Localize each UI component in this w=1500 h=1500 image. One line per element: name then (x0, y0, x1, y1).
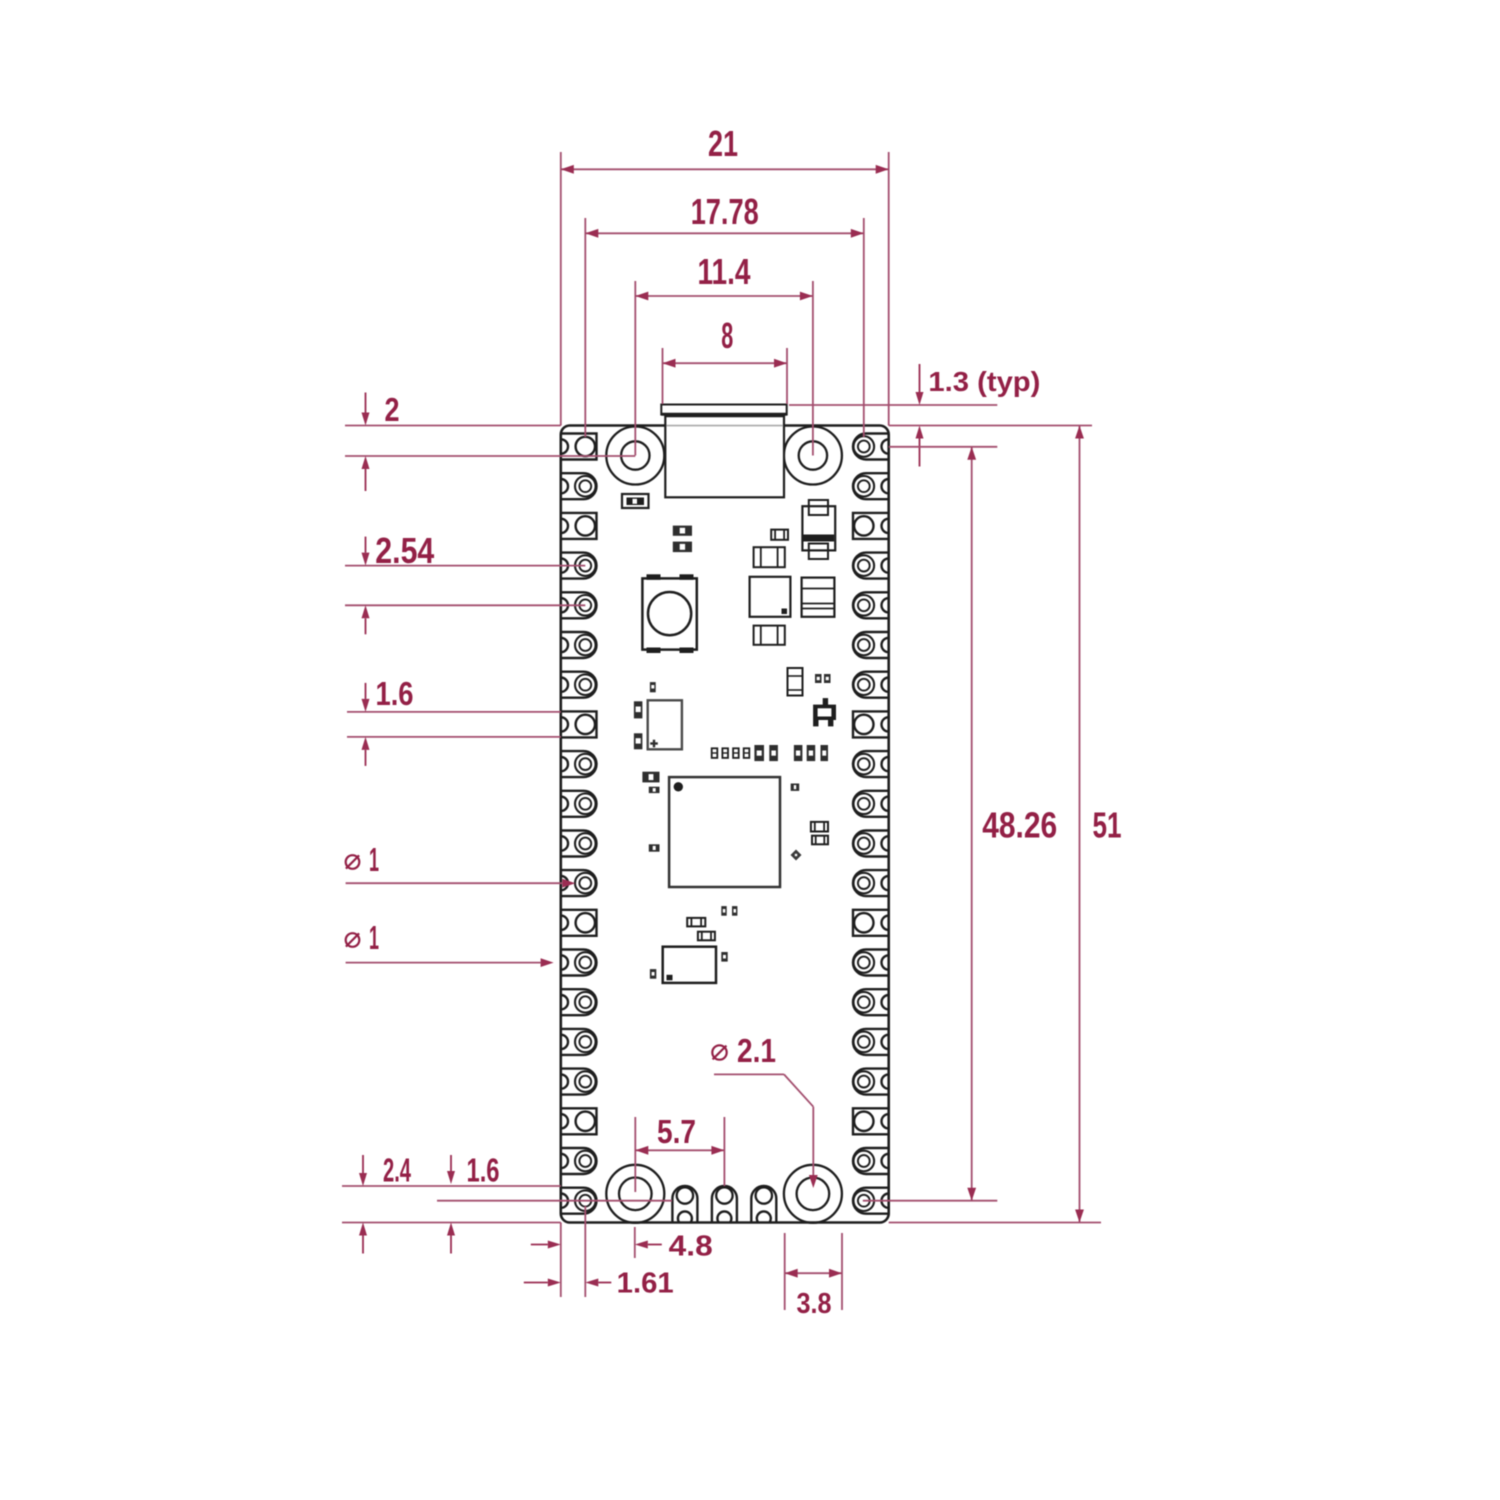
capacitor C16 (642, 772, 659, 783)
dimension 3.8 label (797, 1288, 832, 1320)
dimension 17.78 label (691, 191, 759, 232)
mounting hole H2 (784, 427, 842, 485)
debug pad TP1 (672, 1186, 697, 1223)
dimension 2 label (385, 391, 400, 428)
capacitor C5 (634, 701, 643, 718)
dimension 2.54 bottom line (345, 604, 585, 606)
dimension 2 bottom line (345, 455, 635, 457)
capacitor C20 (698, 932, 715, 941)
dimension 1.3 typ upper line (USB lip) (789, 404, 997, 406)
svg-text:4.8: 4.8 (669, 1230, 713, 1262)
dimension 48.26 top extension (863, 1200, 998, 1202)
svg-text:1: 1 (369, 841, 379, 878)
dimension 11.4 extension line left (634, 281, 636, 456)
microcontroller U1 RP2040 (669, 777, 780, 887)
dimension diameter 2.1 label (712, 1032, 776, 1069)
dimension 1.6 bottom arrows (447, 1155, 455, 1254)
pad P36 (right row 16) (853, 1029, 889, 1055)
mounting hole H3 (606, 1165, 664, 1223)
pad P11 (left row 11) (561, 831, 597, 857)
pad P16 (left row 16) (561, 1029, 597, 1055)
svg-text:1.6: 1.6 (376, 675, 414, 712)
mounting hole H1 (606, 427, 664, 485)
resistor R6 (649, 787, 660, 793)
pad P19 (left row 19) (561, 1148, 597, 1174)
pad P25 (right row 5) (853, 592, 889, 618)
dimension 5.7 extension line left (634, 1117, 636, 1192)
flash memory U3 (663, 947, 716, 983)
crystal Y1 (648, 700, 682, 749)
pad P29 (right row 9) (853, 751, 889, 777)
dimension 2.4 top line (debug pad top) (342, 1185, 561, 1187)
pad P6 (left row 6) (561, 632, 597, 658)
pad P3 (left row 3 square) (561, 513, 597, 539)
dimension 17.78 extension line left (584, 218, 586, 437)
board top edge extension to right (889, 425, 1092, 427)
dimension 1.6 arrows (362, 683, 370, 766)
dimension 4.8 arrows (531, 1241, 662, 1249)
dimension 11.4 line with arrows (635, 292, 813, 301)
pad P30 (right row 10) (853, 791, 889, 817)
pad P38 (right row 18 square) (853, 1108, 889, 1134)
pad P1 (left row 1 square) (561, 434, 597, 460)
capacitor C12 (769, 745, 778, 761)
dimension diameter 1 castellation label (346, 919, 379, 956)
dimension 1.61 arrows (524, 1279, 612, 1287)
resistor R11 (650, 969, 656, 979)
pad P4 (left row 4) (561, 553, 597, 579)
pad P22 (right row 2) (853, 473, 889, 499)
dimension 3.8 extension line right (841, 1233, 843, 1310)
dimension 5.7 label (657, 1113, 696, 1150)
LED D2 (622, 494, 649, 508)
resistor R9 (721, 906, 726, 916)
capacitor C4 (788, 668, 803, 696)
component D3 diamond (791, 850, 802, 861)
dimension 48.26 line with arrows (967, 447, 976, 1201)
capacitor C13 (794, 745, 803, 761)
svg-text:48.26: 48.26 (982, 804, 1057, 845)
dimension 17.78 extension line right (863, 218, 865, 437)
resistor R2 (673, 542, 692, 553)
svg-text:1.61: 1.61 (617, 1268, 674, 1300)
svg-text:51: 51 (1093, 804, 1122, 845)
svg-text:2.1: 2.1 (737, 1032, 776, 1069)
dimension 21 extension line right (888, 152, 890, 426)
capacitor C2 (802, 578, 835, 617)
dimension 2.54 arrows (362, 537, 370, 635)
dimension 1.61 label (617, 1268, 674, 1300)
pad P23 (right row 3 square) (853, 513, 889, 539)
svg-text:17.78: 17.78 (691, 191, 759, 232)
resistor R10 (732, 906, 737, 916)
dimension 21 label (708, 123, 738, 164)
capacitor C1 (754, 547, 785, 567)
button SW1 BOOTSEL (642, 574, 696, 653)
dimension 4.8 label (669, 1230, 713, 1262)
dimension 51 bottom extension (889, 1222, 1101, 1224)
dimension 11.4 extension line right (812, 281, 814, 456)
pad P35 (right row 15) (853, 989, 889, 1015)
pad P18 (left row 18 square) (561, 1108, 597, 1134)
diode D1 (802, 500, 835, 559)
svg-text:1: 1 (369, 919, 379, 956)
pad P26 (right row 6) (853, 632, 889, 658)
dimension diameter 2.1 leader (714, 1074, 818, 1188)
svg-text:8: 8 (721, 315, 733, 356)
dimension 1.6 label (376, 675, 414, 712)
capacitor C9 (733, 748, 739, 758)
svg-text:1.3 (typ): 1.3 (typ) (928, 366, 1040, 397)
capacitor C3 (754, 626, 785, 645)
pad P34 (right row 14) (853, 950, 889, 976)
pad P17 (left row 17) (561, 1069, 597, 1095)
capacitor C6 (634, 733, 643, 749)
resistor R7 (649, 844, 660, 851)
dimension 17.78 line with arrows (585, 229, 864, 238)
pad P8 (left row 8 square) (561, 711, 597, 737)
dimension 1.3 typ arrows (916, 364, 924, 467)
pad P28 (right row 8 square) (853, 711, 889, 737)
dimension 11.4 label (698, 251, 751, 292)
dimension 3.8 line with arrows (785, 1269, 842, 1278)
pad P21 (right row 1) (853, 434, 889, 460)
pad P24 (right row 4) (853, 553, 889, 579)
svg-text:3.8: 3.8 (797, 1288, 832, 1320)
dimension 48.26 label (982, 804, 1057, 845)
dimension 21 line with arrows (561, 165, 889, 174)
dimension 1.6 pad top line (347, 711, 561, 713)
pad P31 (right row 11) (853, 831, 889, 857)
dimension 8 extension line right (786, 348, 788, 404)
pad P32 (right row 12) (853, 870, 889, 896)
capacitor C17 (811, 822, 828, 832)
pad P40 (right row 20) (853, 1188, 889, 1214)
pad P13 (left row 13 square) (561, 910, 597, 936)
dimension 8 label (721, 315, 733, 356)
dimension 2.54 label (375, 530, 434, 571)
debug pad TP3 (751, 1186, 776, 1223)
dimension 51 line with arrows (1075, 426, 1084, 1223)
resistor R8 (791, 784, 800, 791)
svg-text:21: 21 (708, 123, 738, 164)
dimension 1.6 bottom label (467, 1152, 500, 1189)
board outline PCB (561, 426, 889, 1223)
svg-text:11.4: 11.4 (698, 251, 751, 292)
pad P39 (right row 19) (853, 1148, 889, 1174)
first pad row extension line right (889, 446, 998, 448)
regulator U2 (750, 577, 791, 617)
capacitor C14 (807, 745, 816, 761)
mounting hole H4 (784, 1165, 842, 1223)
svg-text:2: 2 (385, 391, 400, 428)
transistor Q1 SOT-23 (813, 698, 836, 726)
svg-text:5.7: 5.7 (657, 1113, 696, 1150)
pad P15 (left row 15) (561, 989, 597, 1015)
dimension 51 label (1093, 804, 1122, 845)
dimension 2 top line (345, 425, 561, 427)
pad P9 (left row 9) (561, 751, 597, 777)
USB connector J1 body (665, 415, 784, 498)
svg-text:2.4: 2.4 (383, 1152, 411, 1189)
pad P10 (left row 10) (561, 791, 597, 817)
dimension 8 line with arrows (663, 359, 788, 368)
svg-text:2.54: 2.54 (375, 530, 434, 571)
dimension 4.8 extension line (hole center) (634, 1227, 636, 1258)
dimension diameter 1 hole label (346, 841, 379, 878)
pad P20 (left row 20) (561, 1188, 597, 1214)
resistor R5 (650, 682, 656, 692)
pad P2 (left row 2) (561, 473, 597, 499)
capacitor C11 (754, 745, 764, 761)
dimension 2 arrows (362, 393, 370, 492)
capacitor C15 (821, 745, 829, 761)
dimension 5.7 extension line right (723, 1117, 725, 1186)
pad P33 (right row 13 square) (853, 910, 889, 936)
pad P14 (left row 14) (561, 950, 597, 976)
dimension 2.4 label (383, 1152, 411, 1189)
debug pad TP2 (712, 1186, 737, 1223)
svg-text:1.6: 1.6 (467, 1152, 500, 1189)
dimension 3.8 extension line left (784, 1233, 786, 1310)
board left edge extension down (560, 1223, 562, 1298)
dimension 2.54 top line (345, 565, 585, 567)
dimension 5.7 line with arrows (635, 1146, 724, 1155)
capacitor C19 (687, 918, 705, 927)
resistor R3 (771, 530, 788, 540)
capacitor C8 (722, 748, 728, 758)
pad P37 (right row 17) (853, 1069, 889, 1095)
capacitor C10 (744, 748, 750, 758)
pad P12 (left row 12) (561, 870, 597, 896)
dimension 1.6 pad center line (437, 1200, 672, 1202)
resistor R1 (673, 526, 692, 536)
dimension 8 extension line left (662, 348, 664, 404)
pad P5 (left row 5) (561, 592, 597, 618)
resistor pair R4 (815, 674, 831, 683)
USB connector J1 lip (661, 405, 786, 415)
resistor R12 (721, 952, 727, 962)
dimension 21 extension line left (560, 152, 562, 426)
dimension 1.61 extension line (pad hole center) (584, 1206, 586, 1297)
dimension 1.6 pad bottom line (347, 736, 561, 738)
dimension diameter 1 hole leader (346, 879, 576, 888)
dimension 2.4 arrows (359, 1155, 367, 1254)
pad P27 (right row 7) (853, 672, 889, 698)
capacitor C7 (712, 748, 718, 758)
pad P7 (left row 7) (561, 672, 597, 698)
dimension 1.3 typ label (928, 366, 1040, 397)
capacitor C18 (812, 836, 828, 845)
dimension 2.4 bottom line (board bottom) (342, 1222, 561, 1224)
dimension diameter 1 castellation leader (346, 958, 554, 967)
